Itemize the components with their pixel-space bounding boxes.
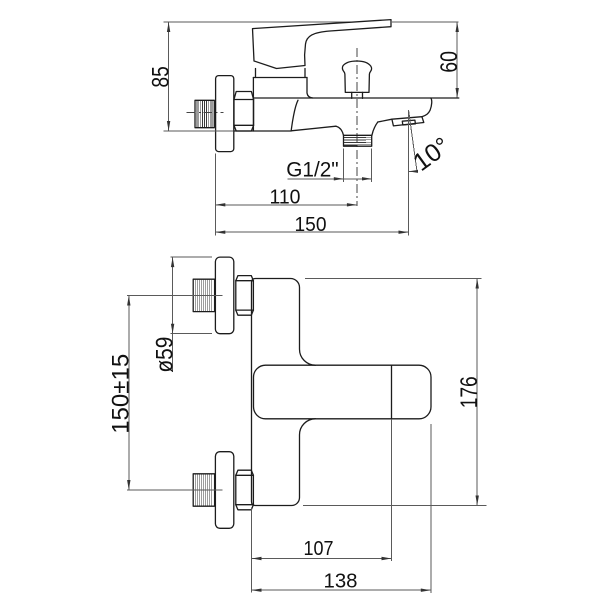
svg-text:150: 150: [295, 214, 327, 236]
10 degree wedge vertical line / 150 extension: [408, 110, 410, 236]
svg-text:85: 85: [147, 66, 174, 88]
dimension 176 extension lines: [305, 278, 482, 280]
spout tip end face: [422, 98, 432, 117]
dimension 138 right extension: [430, 424, 432, 593]
top wall connection: nipple: [193, 279, 214, 311]
svg-text:107: 107: [304, 538, 334, 560]
svg-text:176: 176: [456, 376, 483, 408]
dimension 60 line: [456, 22, 458, 98]
dimension 107 left extension: [251, 508, 253, 593]
valve body (side view): [253, 78, 312, 132]
outlet threaded spigot G1/2: [344, 135, 372, 146]
svg-text:150±15: 150±15: [107, 354, 134, 434]
cartridge cap ring: [253, 69, 307, 78]
dimension 85 line: [168, 22, 170, 131]
bottom wall connection: hex nut (front): [236, 470, 254, 510]
G1/2 extension lines: [342, 149, 344, 183]
wall nipple (threaded, side view): [195, 100, 214, 127]
110/150 left extension line: [214, 154, 216, 236]
10 degree tick and arrow: [409, 170, 419, 172]
dimension 60 arrows: [456, 22, 459, 32]
top connection center line / 150+-15 extension: [127, 295, 223, 297]
dimension 85 arrows: [167, 22, 170, 32]
svg-text:ø59: ø59: [151, 337, 178, 373]
svg-text:110: 110: [270, 187, 301, 209]
G1/2 arrows: [334, 177, 344, 180]
spout underside: [291, 126, 336, 131]
spout aerator at tip: [392, 117, 424, 126]
handle grip edge / 107 extension line: [391, 365, 393, 419]
dimension 138 line: [252, 589, 431, 591]
valve body (front view): [252, 279, 316, 506]
top wall connection: hex nut (front): [236, 276, 254, 316]
hex nut (side view): [234, 92, 254, 132]
body bottom edge + 85 extension: [164, 130, 234, 132]
dimension phi59 line: [172, 257, 174, 372]
handle (front view): [254, 365, 432, 419]
svg-text:138: 138: [324, 571, 358, 593]
diverter/outlet center line: [356, 48, 358, 206]
escutcheon plate (side view): [216, 76, 234, 152]
svg-text:G1/2": G1/2": [286, 159, 339, 182]
outlet boss shoulders: [336, 126, 344, 135]
dimension 176 line: [476, 279, 478, 506]
dimension 107 line: [252, 558, 392, 560]
lever handle (side view): [253, 20, 392, 69]
bottom connection center line / 150+-15 extension: [127, 489, 223, 491]
dimension 110 line: [215, 204, 357, 206]
spout crease: [291, 100, 298, 131]
dimension 150+-15 line: [128, 296, 130, 491]
deck top edge + 60 extension: [253, 97, 458, 99]
dimension 150 line: [215, 231, 408, 233]
bottom wall connection: nipple: [193, 474, 214, 506]
top wall connection: escutcheon (front): [215, 257, 233, 334]
diverter knob: [342, 61, 371, 98]
bottom wall connection: escutcheon (front): [215, 452, 233, 529]
extension line top (85/60 dims, along lever tip): [164, 21, 353, 23]
nipple center line (side view): [187, 111, 224, 113]
dimension phi59 extension lines: [171, 256, 212, 258]
svg-text:60: 60: [436, 51, 463, 73]
10 degree angled line: [409, 111, 417, 172]
G1/2 dimension line: [288, 178, 372, 180]
